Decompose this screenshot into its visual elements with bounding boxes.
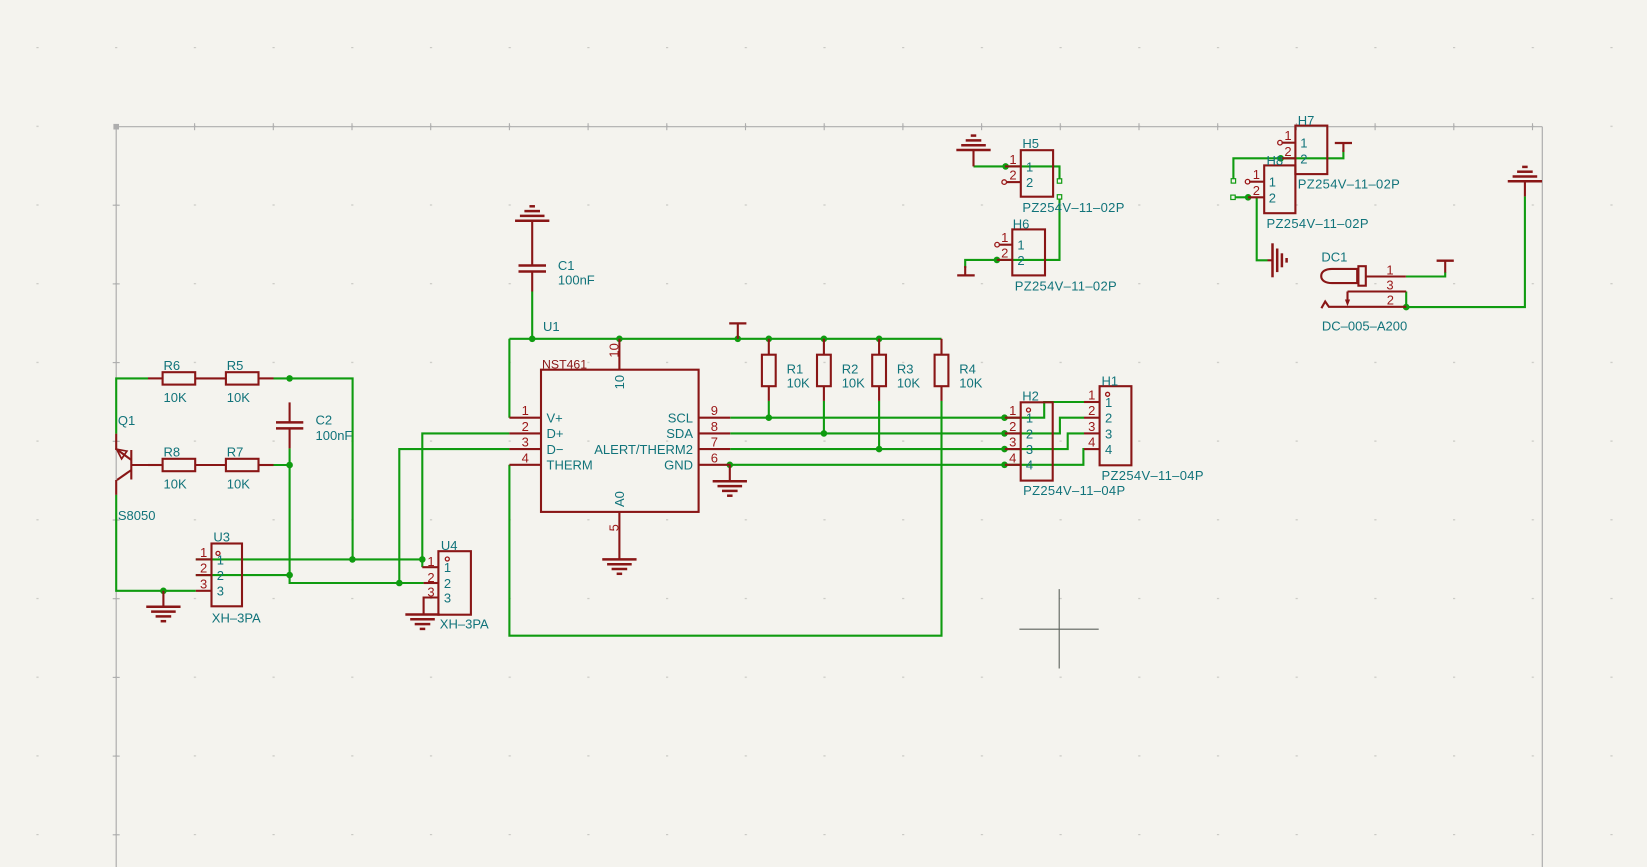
- junction H8 pin2: [1245, 194, 1252, 201]
- resistor R3: [872, 339, 920, 401]
- svg-text:10K: 10K: [164, 390, 187, 405]
- resistor R8: [148, 445, 226, 492]
- svg-text:R5: R5: [227, 358, 244, 373]
- svg-text:2: 2: [1026, 175, 1033, 190]
- ground at U1 pin6 GND: [713, 465, 747, 496]
- junction U1 GND pin: [727, 462, 734, 469]
- svg-text:R2: R2: [842, 362, 859, 377]
- svg-text:NST461: NST461: [542, 357, 587, 371]
- unconnected pin H8.1: [1245, 179, 1250, 184]
- wire: top V+ rail: [509, 338, 941, 340]
- wire: U1 D+ to U4 pin1: [422, 433, 509, 559]
- unconnected pin H7.1: [1278, 140, 1283, 145]
- svg-text:3: 3: [1009, 435, 1016, 450]
- wire end square H5: [1057, 179, 1061, 183]
- svg-text:ALERT/THERM2: ALERT/THERM2: [594, 442, 693, 457]
- svg-text:6: 6: [711, 450, 718, 465]
- connector U3 XH-3PA: [196, 530, 261, 626]
- svg-text:DC–005–A200: DC–005–A200: [1322, 319, 1407, 334]
- svg-text:1: 1: [200, 545, 207, 560]
- transistor Q1 S8050: [116, 413, 162, 523]
- svg-text:8: 8: [711, 419, 718, 434]
- wire: H5 pin1 to ground: [974, 165, 1006, 167]
- svg-text:10: 10: [612, 375, 627, 389]
- resistor R4: [935, 339, 983, 401]
- wire: dangling segment to H6 pin2: [997, 199, 1060, 260]
- ground at U4 pin3: [405, 615, 439, 629]
- svg-text:2: 2: [1269, 190, 1276, 205]
- junction H6 pin2: [994, 257, 1001, 264]
- power bar symbol at V+ rail: [729, 323, 746, 338]
- svg-text:100nF: 100nF: [558, 272, 595, 287]
- svg-text:1: 1: [1009, 152, 1016, 167]
- wire end square above H6 net: [1057, 195, 1061, 199]
- svg-text:4: 4: [1088, 435, 1095, 450]
- wire: SDA net U1 pin8 to H2 pin2 and H1 pin2: [730, 418, 1084, 434]
- wire: H7 pin2 to bar power: [1281, 150, 1344, 158]
- svg-text:1: 1: [1253, 167, 1260, 182]
- svg-text:3: 3: [522, 435, 529, 450]
- svg-text:H5: H5: [1022, 136, 1039, 151]
- svg-text:XH–3PA: XH–3PA: [212, 610, 261, 625]
- wire: U4 pin1 stub drop: [421, 559, 423, 567]
- svg-text:3: 3: [427, 584, 434, 599]
- wire: R6-R5 rail to C2 junction and down to U3 pin1: [274, 378, 353, 559]
- junction H2 pin4: [1001, 462, 1008, 469]
- svg-text:C2: C2: [316, 413, 333, 428]
- DC jack DC1 DC-005-A200: [1321, 250, 1407, 334]
- junction H2 pin2: [1001, 430, 1008, 437]
- ground at U1 pin5 A0: [602, 559, 636, 573]
- junction C1 at rail: [529, 336, 536, 343]
- svg-text:H8: H8: [1267, 153, 1284, 168]
- junction R3 top: [876, 336, 883, 343]
- svg-text:V+: V+: [547, 411, 563, 426]
- resistor R5: [226, 358, 274, 405]
- junction R2 at SDA: [821, 430, 828, 437]
- svg-text:H1: H1: [1102, 373, 1119, 388]
- svg-text:2: 2: [200, 561, 207, 576]
- connector H1 PZ254V-11-04P: [1084, 373, 1204, 483]
- svg-text:2: 2: [1026, 426, 1033, 441]
- svg-text:PZ254V–11–02P: PZ254V–11–02P: [1022, 200, 1124, 215]
- junction R1 at SCL: [766, 414, 773, 421]
- junction H5 pin1: [1002, 163, 1009, 170]
- svg-text:10K: 10K: [787, 375, 810, 390]
- svg-text:SCL: SCL: [668, 411, 693, 426]
- bar power at DC1 pin1: [1437, 261, 1454, 273]
- resistor R2: [817, 339, 865, 401]
- svg-text:2: 2: [1105, 411, 1112, 426]
- svg-text:1: 1: [1009, 403, 1016, 418]
- connector H8 PZ254V-11-02P: [1248, 153, 1369, 231]
- sheet border frame: [113, 123, 1543, 867]
- svg-text:10K: 10K: [164, 477, 187, 492]
- wire: U1 D- down to U4 pin2 row: [399, 449, 509, 583]
- wire end square H7: [1231, 179, 1235, 183]
- wire: H5 pin1 over box to dangling end: [1006, 166, 1060, 178]
- svg-text:D+: D+: [547, 426, 564, 441]
- svg-text:D−: D−: [547, 442, 564, 457]
- svg-text:R3: R3: [897, 362, 914, 377]
- wire: DC1 pin1 to bar power: [1406, 272, 1445, 277]
- wire: H8 pin2 drop to chassis ground: [1257, 197, 1268, 260]
- junction H2 pin3: [1001, 446, 1008, 453]
- wire: R3 bottom to ALERT row: [878, 401, 880, 449]
- chassis ground below H8: [1268, 243, 1287, 277]
- connector U4 XH-3PA: [422, 538, 489, 632]
- wire: H7 pin2 to dangling end: [1233, 158, 1280, 178]
- svg-text:4: 4: [522, 450, 529, 465]
- svg-text:1: 1: [1001, 230, 1008, 245]
- svg-text:7: 7: [711, 435, 718, 450]
- wire: ALERT net U1 pin7 to H2 pin3 and H1 pin3: [730, 433, 1084, 449]
- far right ground (inverted): [1508, 167, 1542, 197]
- svg-text:2: 2: [1009, 419, 1016, 434]
- junction R1 top: [766, 336, 773, 343]
- unconnected pin H5.2: [1002, 180, 1007, 185]
- svg-text:10K: 10K: [959, 375, 982, 390]
- svg-text:R8: R8: [164, 445, 181, 460]
- svg-text:R7: R7: [227, 445, 244, 460]
- svg-text:9: 9: [711, 403, 718, 418]
- svg-text:S8050: S8050: [118, 508, 156, 523]
- wire: H6 pin2 to bar ground: [965, 260, 997, 268]
- svg-text:3: 3: [1026, 442, 1033, 457]
- svg-text:R1: R1: [787, 362, 804, 377]
- svg-text:2: 2: [1253, 183, 1260, 198]
- svg-text:U3: U3: [213, 530, 230, 545]
- svg-text:3: 3: [444, 590, 451, 605]
- ground at U3 pin3: [146, 591, 180, 621]
- IC U1 NST461: [509, 319, 730, 559]
- junction H7 pin2: [1277, 155, 1284, 162]
- svg-text:PZ254V–11–02P: PZ254V–11–02P: [1298, 176, 1400, 191]
- svg-text:1: 1: [1026, 411, 1033, 426]
- svg-text:3: 3: [1105, 426, 1112, 441]
- wire: V+ rail down to U1 pin1: [508, 339, 510, 418]
- svg-text:PZ254V–11–04P: PZ254V–11–04P: [1023, 483, 1125, 498]
- svg-text:1: 1: [1284, 128, 1291, 143]
- junction R2 top: [821, 336, 828, 343]
- svg-text:THERM: THERM: [547, 458, 593, 473]
- wire: DC1 pin3 drop to pin2 junction: [1405, 292, 1407, 308]
- wire: U3 pin2 to C2 junction: [196, 574, 290, 576]
- svg-text:1: 1: [1386, 262, 1393, 277]
- junction U3 pin1 net mid: [349, 556, 356, 563]
- svg-text:2: 2: [1387, 292, 1394, 307]
- svg-text:U4: U4: [441, 538, 458, 553]
- junction U3 pin2 net: [286, 572, 293, 579]
- svg-text:C1: C1: [558, 258, 575, 273]
- wire: H8 pin2 from dangling end: [1235, 196, 1248, 198]
- connector H7 PZ254V-11-02P: [1281, 113, 1400, 191]
- wire: R1 bottom to SCL row: [768, 401, 770, 418]
- junction D- at U4 pin2 row: [396, 580, 403, 587]
- ground above C1 (inverted): [515, 206, 549, 220]
- svg-text:5: 5: [606, 524, 621, 531]
- resistor R7: [226, 445, 274, 492]
- junction R3 at ALERT: [876, 446, 883, 453]
- capacitor C1 100nF: [519, 221, 595, 292]
- svg-text:PZ254V–11–04P: PZ254V–11–04P: [1102, 468, 1204, 483]
- connector H5 PZ254V-11-02P: [1005, 136, 1125, 215]
- wire: R2 bottom to SDA row: [823, 401, 825, 434]
- svg-text:PZ254V–11–02P: PZ254V–11–02P: [1015, 279, 1117, 294]
- resistor R6: [148, 358, 226, 405]
- svg-text:R6: R6: [164, 358, 181, 373]
- svg-text:2: 2: [1300, 151, 1307, 166]
- bar power at H7 pin2: [1335, 143, 1352, 152]
- junction DC1 pin2: [1403, 304, 1410, 311]
- svg-text:2: 2: [1001, 245, 1008, 260]
- svg-text:4: 4: [1105, 442, 1112, 457]
- svg-text:1: 1: [1105, 395, 1112, 410]
- svg-text:A0: A0: [612, 491, 627, 507]
- svg-text:1: 1: [522, 403, 529, 418]
- svg-text:1: 1: [1300, 136, 1307, 151]
- svg-text:1: 1: [1026, 159, 1033, 174]
- svg-text:H7: H7: [1298, 113, 1315, 128]
- svg-text:4: 4: [1009, 450, 1016, 465]
- svg-text:PZ254V–11–02P: PZ254V–11–02P: [1267, 216, 1369, 231]
- svg-text:U1: U1: [543, 319, 560, 334]
- wire: DC1 pin2 to far ground: [1406, 196, 1525, 307]
- wire: Q1 collector down to U3 pin3: [116, 495, 196, 591]
- junction power bar at rail: [735, 336, 742, 343]
- wire: SCL net U1 pin9 to H2 pin1 and H1 pin1: [730, 402, 1084, 418]
- svg-text:100nF: 100nF: [316, 428, 353, 443]
- svg-text:3: 3: [1386, 277, 1393, 292]
- junction C2 bottom R7: [286, 462, 293, 469]
- wire: R7 to C2 junction: [274, 464, 290, 466]
- svg-text:2: 2: [217, 568, 224, 583]
- junction U4 pin1: [419, 556, 426, 563]
- svg-text:2: 2: [1009, 168, 1016, 183]
- svg-text:2: 2: [1088, 403, 1095, 418]
- wire: left rail from R6 to Q1 emitter: [116, 378, 148, 433]
- svg-text:10: 10: [606, 343, 621, 357]
- svg-text:XH–3PA: XH–3PA: [440, 617, 489, 632]
- connector H6 PZ254V-11-02P: [997, 216, 1117, 293]
- svg-text:10K: 10K: [227, 477, 250, 492]
- wire end square H8: [1231, 195, 1235, 199]
- unconnected pin H6.1: [995, 242, 1000, 247]
- svg-text:10K: 10K: [897, 375, 920, 390]
- svg-text:2: 2: [427, 570, 434, 585]
- junction U3 pin3 ground tap: [160, 588, 167, 595]
- wire: U1 THERM loop to R4 bottom: [509, 401, 941, 636]
- svg-text:3: 3: [200, 576, 207, 591]
- junction U1 pin10 at rail: [616, 336, 623, 343]
- wire: C2 junction down to U3 pin2 row, step to U4 pin2: [290, 448, 424, 583]
- junction H2 pin1: [1001, 414, 1008, 421]
- bar ground below H6: [957, 266, 975, 275]
- ground at H5 pin1 (inverted): [956, 136, 990, 167]
- svg-text:1: 1: [427, 554, 434, 569]
- resistor R1: [762, 339, 810, 401]
- svg-text:1: 1: [1017, 238, 1024, 253]
- svg-text:1: 1: [1269, 175, 1276, 190]
- svg-text:DC1: DC1: [1321, 250, 1347, 265]
- svg-text:H6: H6: [1013, 216, 1030, 231]
- svg-text:3: 3: [217, 584, 224, 599]
- wire: U3 pin1 across to U4 pin1 junction: [196, 558, 422, 560]
- svg-text:10K: 10K: [227, 390, 250, 405]
- svg-text:GND: GND: [664, 458, 693, 473]
- svg-text:H2: H2: [1022, 389, 1039, 404]
- svg-text:3: 3: [1088, 419, 1095, 434]
- svg-text:2: 2: [522, 419, 529, 434]
- svg-text:Q1: Q1: [118, 413, 135, 428]
- wire: GND net U1 pin6 to H2 pin4 and H1 pin4: [730, 449, 1084, 465]
- svg-text:1: 1: [444, 560, 451, 575]
- svg-text:2: 2: [1017, 253, 1024, 268]
- svg-text:2: 2: [1284, 144, 1291, 159]
- svg-text:R4: R4: [959, 362, 976, 377]
- svg-text:10K: 10K: [842, 375, 865, 390]
- connector H2 PZ254V-11-04P: [1005, 389, 1126, 499]
- svg-text:SDA: SDA: [666, 426, 693, 441]
- svg-text:4: 4: [1026, 458, 1033, 473]
- svg-text:2: 2: [444, 576, 451, 591]
- junction R6/R5-C2 top: [286, 375, 293, 382]
- capacitor C2 100nF: [276, 402, 352, 448]
- crosshair origin marker: [1019, 589, 1098, 668]
- svg-text:1: 1: [1088, 388, 1095, 403]
- wire: C1 lead to rail: [531, 292, 533, 339]
